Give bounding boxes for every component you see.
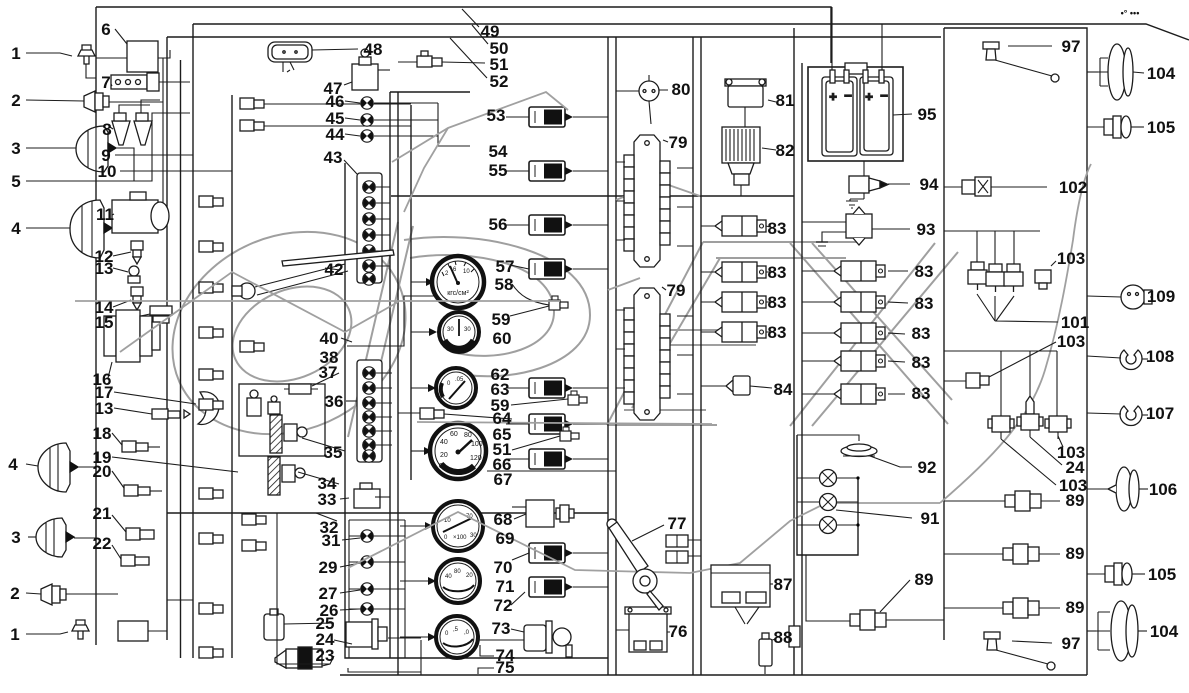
svg-text:11: 11 [96, 205, 114, 224]
svg-text:81: 81 [776, 91, 795, 110]
relay 63 [506, 378, 608, 398]
svg-text:83: 83 [768, 219, 787, 238]
svg-text:73: 73 [492, 619, 511, 638]
relays 83 right [802, 261, 908, 281]
svg-text:10: 10 [98, 162, 117, 181]
svg-text:35: 35 [324, 443, 343, 462]
relay 65 [506, 414, 608, 434]
svg-text:103: 103 [1057, 249, 1085, 268]
item 12 sensor [113, 241, 143, 264]
headlamp 3 top [26, 126, 134, 181]
svg-text:67: 67 [494, 470, 513, 489]
svg-text:40: 40 [445, 574, 452, 580]
wire 9 [115, 154, 193, 156]
svg-text:94: 94 [920, 175, 939, 194]
relay 56 [506, 215, 608, 235]
item 108 [1087, 350, 1148, 369]
svg-text:+: + [865, 89, 873, 104]
svg-text:84: 84 [774, 380, 793, 399]
item 13b plug [114, 408, 190, 419]
svg-text:103: 103 [1057, 332, 1085, 351]
column pair x794 x802 [793, 28, 795, 675]
long wire y196 [391, 195, 794, 197]
sensor 59b [511, 391, 587, 405]
svg-text:109: 109 [1147, 287, 1175, 306]
relay 55 [506, 161, 608, 181]
item 92 horn [797, 435, 912, 467]
item 21 sensor [112, 515, 154, 540]
svg-text:43: 43 [324, 148, 343, 167]
svg-text:77: 77 [668, 514, 687, 533]
item 25 canister [264, 609, 334, 640]
svg-text:30: 30 [470, 533, 477, 539]
item 7 relay [111, 73, 190, 91]
item 107 [1087, 406, 1148, 425]
vertical x167 [166, 37, 168, 640]
gauge 60 ammeter [411, 312, 479, 352]
relay 72 [511, 577, 608, 605]
svg-text:60: 60 [450, 431, 458, 438]
svg-text:83: 83 [915, 294, 934, 313]
svg-text:53: 53 [487, 106, 506, 125]
right box [944, 28, 1087, 675]
bell 1 bottom [26, 620, 89, 639]
svg-text:30: 30 [447, 327, 454, 333]
svg-text:37: 37 [319, 363, 338, 382]
relay 57 [510, 259, 608, 279]
svg-text:52: 52 [490, 72, 509, 91]
svg-text:40: 40 [440, 439, 448, 446]
svg-text:15: 15 [95, 313, 114, 332]
item 82 heater [722, 127, 776, 196]
item 104 bottom [1087, 601, 1147, 661]
inner verticals x390 x398 [389, 92, 391, 658]
svg-text:108: 108 [1146, 347, 1174, 366]
svg-text:3: 3 [11, 139, 20, 158]
svg-text:58: 58 [495, 275, 514, 294]
item 88 fuses [759, 626, 800, 674]
svg-text:97: 97 [1062, 634, 1081, 653]
svg-text:31: 31 [322, 531, 341, 550]
svg-text:55: 55 [489, 161, 508, 180]
svg-text:104: 104 [1150, 622, 1179, 641]
svg-text:+: + [829, 89, 837, 104]
letter P stem [348, 222, 413, 437]
svg-text:70: 70 [494, 558, 513, 577]
item 24 switch [334, 619, 387, 649]
item 91 lamps [797, 435, 912, 621]
rightcol [607, 7, 944, 674]
fuse block 79b [624, 288, 670, 420]
item 35 socket [270, 415, 345, 453]
midcol [398, 9, 616, 674]
svg-text:2: 2 [11, 91, 20, 110]
item 23 glow plug [275, 647, 334, 669]
item 97 bottom [984, 632, 1055, 670]
item 15 connector [113, 306, 172, 323]
item 76 [616, 607, 671, 652]
item 80 [616, 75, 668, 124]
vertical x193 [192, 24, 194, 658]
wire 49 top line [96, 7, 831, 63]
bell 1 top [26, 45, 96, 78]
strip connectors [199, 98, 411, 658]
svg-text:88: 88 [774, 628, 793, 647]
lamps 46 45 44 [345, 97, 470, 146]
svg-text:83: 83 [912, 384, 931, 403]
item 20 sensor [112, 471, 162, 496]
svg-text:30: 30 [464, 327, 471, 333]
item 34 socket [268, 457, 339, 495]
svg-text:79: 79 [667, 281, 686, 300]
svg-text:97: 97 [1062, 37, 1081, 56]
svg-text:80: 80 [672, 80, 691, 99]
relays 83 left [701, 216, 770, 236]
vertical x411 [410, 105, 412, 480]
svg-text:80: 80 [454, 569, 461, 575]
svg-text:75: 75 [496, 658, 515, 677]
svg-text:29: 29 [319, 558, 338, 577]
item 22 sensor [112, 545, 149, 566]
103 bottom cluster [944, 342, 1071, 485]
svg-text:20: 20 [93, 462, 112, 481]
headlamp 4 bottom [26, 443, 96, 492]
svg-text:83: 83 [915, 262, 934, 281]
svg-text:105: 105 [1147, 118, 1175, 137]
svg-text:89: 89 [915, 570, 934, 589]
svg-text:107: 107 [1146, 404, 1174, 423]
relay 70 [512, 543, 608, 563]
svg-text:104: 104 [1147, 64, 1176, 83]
letter P loop [404, 237, 590, 376]
relay 53 [506, 107, 608, 127]
svg-text:120: 120 [470, 455, 482, 462]
item 105 bottom [1087, 563, 1145, 585]
left border [95, 7, 97, 645]
item 42 wiper [232, 250, 394, 299]
gauge 69 tachometer [400, 501, 483, 551]
svg-text:5: 5 [11, 172, 20, 191]
item 33 flasher [340, 483, 390, 508]
long wire y512 [167, 512, 608, 514]
item 97 top [983, 42, 1059, 82]
svg-text:,0: ,0 [464, 630, 470, 636]
svg-text:3: 3 [11, 528, 20, 547]
box 37 area [239, 384, 325, 456]
sensor 51b [512, 427, 579, 450]
wire leaders 49-52 [450, 9, 488, 78]
svg-text:33: 33 [318, 490, 337, 509]
svg-text:87: 87 [774, 575, 793, 594]
item 89c [944, 598, 1060, 618]
item 106 [1087, 467, 1148, 511]
item 104 top [1087, 44, 1144, 100]
sensor 59a [510, 284, 568, 316]
svg-text:22: 22 [93, 534, 112, 553]
svg-text:76: 76 [669, 622, 688, 641]
item 8 lamps [110, 100, 160, 145]
svg-text:59: 59 [492, 310, 511, 329]
svg-text:71: 71 [496, 577, 515, 596]
item 102 [944, 177, 1047, 196]
item 68 [512, 500, 574, 527]
svg-text:6: 6 [101, 20, 110, 39]
item 89b [944, 544, 1060, 564]
svg-text:68: 68 [494, 510, 513, 529]
item 89 bl [850, 580, 944, 630]
svg-text:8: 8 [102, 120, 111, 139]
gauge 73g [400, 616, 478, 658]
item 87 [711, 565, 773, 624]
item 51a connector [398, 51, 485, 67]
vertical x180 [180, 60, 182, 658]
column pair x608 x616 [607, 37, 609, 675]
letter X [790, 243, 952, 424]
bracket 74 75 [478, 645, 494, 674]
leftcol [96, 29, 411, 658]
lamps 31 29 27 26 [340, 520, 405, 658]
item 17 horn [114, 392, 219, 425]
item 47 [344, 49, 390, 90]
rightmargin [1087, 44, 1152, 661]
gauge 67 speedometer [411, 423, 486, 479]
svg-text:44: 44 [326, 125, 345, 144]
svg-text:57: 57 [496, 257, 515, 276]
svg-text:−: − [880, 88, 888, 103]
svg-text:95: 95 [918, 105, 937, 124]
svg-text:×100: ×100 [453, 535, 467, 541]
watermark OREX [140, 196, 958, 471]
item 81 [725, 79, 776, 127]
wire 10 [120, 170, 232, 172]
letter E [607, 242, 720, 425]
svg-text:101: 101 [1061, 313, 1089, 332]
svg-text:13: 13 [95, 259, 114, 278]
item 6 box [96, 29, 170, 72]
svg-text:кгс/см²: кгс/см² [447, 290, 469, 297]
leftmargin [26, 45, 190, 639]
svg-text:48: 48 [364, 40, 383, 59]
item 84 [701, 376, 772, 395]
item 16 filter [104, 310, 160, 378]
svg-text:106: 106 [1149, 480, 1177, 499]
gauge 58 pressure [411, 256, 484, 308]
svg-text:42: 42 [325, 260, 344, 279]
item 105 top [1087, 116, 1144, 138]
grey wires [75, 92, 1091, 573]
svg-text:•° •••: •° ••• [1121, 8, 1140, 18]
gauge 62 fuel [411, 368, 476, 408]
svg-text:92: 92 [918, 458, 937, 477]
plug 2 top [26, 91, 163, 112]
svg-text:83: 83 [768, 323, 787, 342]
svg-text:72: 72 [494, 596, 513, 615]
svg-text:1: 1 [10, 625, 19, 644]
connector strip verticals [231, 95, 233, 658]
svg-text:79: 79 [669, 133, 688, 152]
svg-text:23: 23 [316, 646, 335, 665]
wires bottom left section [96, 467, 193, 631]
svg-text:,5: ,5 [453, 627, 459, 633]
svg-text:83: 83 [768, 293, 787, 312]
letter O outer [140, 196, 438, 471]
item 73 switch [511, 621, 572, 657]
svg-text:83: 83 [768, 263, 787, 282]
letter O inner [217, 269, 366, 400]
item 18 sensor [112, 433, 160, 452]
svg-text:−: − [844, 88, 852, 103]
plug 2 bottom [26, 584, 96, 605]
battery 95 [808, 7, 912, 161]
rightbox [944, 42, 1071, 670]
wire x163 [96, 58, 163, 228]
svg-text:91: 91 [921, 509, 940, 528]
fuse block 36 [346, 360, 392, 462]
column pair x693 x701 [692, 37, 694, 675]
svg-text:89: 89 [1066, 598, 1085, 617]
panel left border [345, 163, 608, 658]
wire 5 [26, 113, 190, 181]
103 top cluster [944, 231, 1058, 322]
svg-text:18: 18 [93, 424, 112, 443]
relay 66 [506, 449, 608, 469]
item 89a [944, 491, 1060, 511]
bottom border [340, 674, 1087, 676]
item 37 fuse [284, 373, 339, 394]
item 93 [802, 207, 910, 246]
svg-text:21: 21 [93, 504, 112, 523]
svg-text:80: 80 [464, 432, 472, 439]
svg-text:100: 100 [471, 441, 483, 448]
wire 52 line [167, 36, 941, 38]
svg-text:83: 83 [912, 324, 931, 343]
svg-text:40: 40 [320, 329, 339, 348]
svg-text:36: 36 [325, 392, 344, 411]
headlamp 3 bottom [28, 518, 96, 557]
svg-text:102: 102 [1059, 178, 1087, 197]
fuse block 43 [344, 160, 390, 285]
item 14 sensor [113, 287, 143, 310]
wire 50 line [193, 24, 1189, 40]
svg-text:20: 20 [466, 573, 473, 579]
item 48 dome lamp [268, 42, 358, 72]
item 77 lever [607, 519, 701, 610]
gauge 71 [400, 559, 480, 603]
svg-text:60: 60 [493, 329, 512, 348]
svg-text:93: 93 [917, 220, 936, 239]
svg-text:105: 105 [1148, 565, 1176, 584]
svg-text:7: 7 [101, 73, 110, 92]
svg-text:89: 89 [1066, 491, 1085, 510]
headlamp 4 top [26, 200, 163, 258]
svg-text:20: 20 [440, 452, 448, 459]
svg-text:54: 54 [489, 142, 508, 161]
svg-text:89: 89 [1066, 544, 1085, 563]
svg-text:2: 2 [10, 584, 19, 603]
svg-text:4: 4 [8, 455, 18, 474]
fuse block 79a [624, 135, 670, 267]
item 94 [846, 161, 910, 208]
svg-text:69: 69 [496, 529, 515, 548]
item 13 sensor [113, 266, 140, 283]
svg-text:4: 4 [11, 219, 21, 238]
svg-text:1: 1 [11, 44, 20, 63]
svg-text:82: 82 [776, 141, 795, 160]
svg-text:83: 83 [912, 353, 931, 372]
wire 40 [347, 296, 470, 346]
svg-text:10: 10 [463, 269, 470, 275]
item 11 motor [112, 192, 169, 233]
svg-text:13: 13 [95, 399, 114, 418]
svg-text:24: 24 [1066, 458, 1085, 477]
wire 19 [112, 457, 238, 472]
conn 64 [398, 408, 512, 419]
svg-text:.05: .05 [455, 377, 464, 383]
svg-text:56: 56 [489, 215, 508, 234]
panel [232, 42, 470, 675]
item 109 [1087, 285, 1152, 309]
